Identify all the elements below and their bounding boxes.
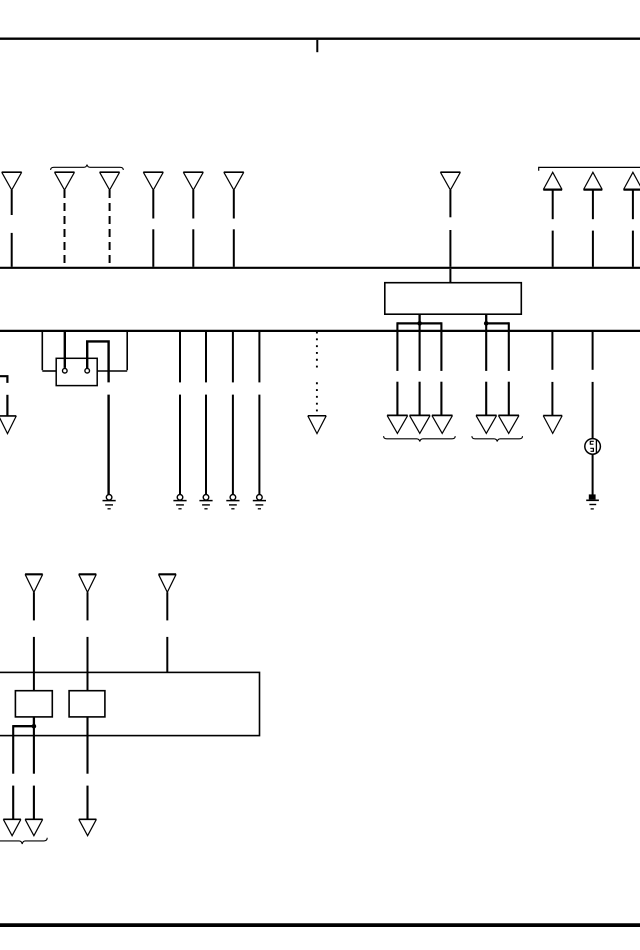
- connector arrow A2: [55, 172, 75, 190]
- wire bus 2 to arrow C7: [551, 332, 553, 416]
- junction dot J2: [484, 321, 489, 326]
- connector housing C6: [56, 358, 97, 385]
- connector arrow B2: [584, 172, 603, 189]
- connector arrow C6a (dotted wire): [308, 416, 326, 434]
- connector shell right lead: [97, 332, 127, 371]
- wire bus 2 to ground G2: [179, 332, 181, 494]
- wire bus line 2: [0, 330, 640, 332]
- wire right group drop 2: [508, 322, 510, 415]
- bottom border line: [0, 923, 640, 927]
- connector arrow C2: [410, 415, 431, 433]
- wire D3 to ECU box: [166, 592, 168, 672]
- top border tick mark: [316, 40, 318, 52]
- wire right group drop 1: [485, 323, 487, 415]
- underbrace for arrows C1-C3: [384, 436, 456, 441]
- ground G2: [173, 495, 186, 509]
- wire left group drop 2: [419, 323, 421, 415]
- connector arrow B1 (from other page): [543, 172, 562, 189]
- connector arrow D1: [25, 574, 43, 592]
- wire U2b output drop E3: [86, 717, 88, 819]
- dotted option wire: [316, 332, 318, 412]
- ground G6: [586, 500, 599, 509]
- connector arrow C3: [432, 415, 453, 433]
- ECU box U2: [0, 672, 260, 735]
- wire left group drop 3: [440, 322, 442, 415]
- relay box U1: [385, 283, 522, 315]
- wire A7 to relay box U1: [449, 190, 451, 283]
- ground G3: [199, 495, 212, 509]
- connector arrow E1: [3, 819, 21, 835]
- connector arrow C1: [387, 415, 408, 433]
- wire A4 to bus 1: [152, 190, 154, 267]
- wire noise filter to ground G6: [592, 454, 594, 495]
- junction blob at G6: [589, 494, 596, 499]
- wire bus 2 to noise filter: [592, 332, 594, 439]
- wire pin 2 to ground drop: [87, 341, 108, 494]
- connector arrow D3: [159, 574, 177, 592]
- wire stub U1 right output: [485, 314, 487, 323]
- wire B1 to bus 1: [552, 190, 554, 267]
- wire branch bar lower: [13, 725, 34, 727]
- wire off-page stub left: [0, 376, 7, 416]
- connector arrow B3: [624, 172, 640, 189]
- connector shell left lead: [42, 332, 56, 371]
- connector arrow A8 (left edge): [0, 416, 16, 434]
- overline for arrows B1-B3: [539, 167, 640, 170]
- ground G1: [103, 495, 116, 509]
- dashed wire A2 to bus 1: [64, 190, 66, 267]
- wire A5 to bus 1: [192, 190, 194, 267]
- wire bus 2 to ground G5: [258, 332, 260, 494]
- connector arrow A1 (to other page): [2, 172, 22, 190]
- wire B2 to bus 1: [592, 190, 594, 267]
- noise filter F1: [585, 439, 601, 455]
- wire D2 to ECU box: [87, 592, 89, 690]
- wire bus 2 to pin 1: [64, 332, 66, 368]
- connector arrow A6: [224, 172, 244, 190]
- terminal pin 1: [63, 368, 68, 373]
- connector arrow A5: [183, 172, 203, 190]
- underbrace for arrows C4-C5: [472, 436, 523, 441]
- junction dot J3: [32, 724, 37, 729]
- wire A6 to bus 1: [233, 190, 235, 267]
- junction dot J1: [417, 321, 422, 326]
- overbrace for arrows A2-A3: [51, 165, 124, 170]
- ground G5: [253, 495, 266, 509]
- wire left group drop 1: [396, 322, 398, 415]
- wire U2a output: [33, 717, 35, 727]
- connector arrow A7: [440, 172, 460, 190]
- wire bus 2 to ground G4: [232, 332, 234, 494]
- internal block U2b: [69, 691, 105, 717]
- wire branch bar right group: [486, 322, 509, 324]
- dashed wire A3 to bus 1: [109, 190, 111, 267]
- wire A1 to bus 1: [11, 190, 13, 267]
- ground G4: [226, 495, 239, 509]
- wire bus 2 to ground G3: [205, 332, 207, 494]
- connector arrow E3: [79, 819, 97, 835]
- wire branch bar left group: [397, 322, 441, 324]
- wire stub U1 left output: [418, 314, 420, 323]
- connector arrow C5: [498, 415, 519, 433]
- connector arrow D2: [79, 574, 97, 592]
- wire drop E2: [33, 727, 35, 819]
- top border line: [0, 38, 640, 40]
- underbrace for arrows E1-E2: [0, 838, 47, 844]
- connector arrow A3: [100, 172, 120, 190]
- wire drop E1: [12, 725, 14, 819]
- connector arrow C7: [543, 416, 562, 434]
- internal block U2a: [15, 691, 52, 717]
- wire bus line 1: [0, 267, 640, 269]
- wire D1 to ECU box: [33, 592, 35, 690]
- connector arrow A4: [143, 172, 163, 190]
- connector arrow C4: [476, 415, 497, 433]
- connector arrow E2: [25, 819, 43, 835]
- wire B3 to bus 1: [632, 190, 634, 267]
- terminal pin 2: [85, 368, 90, 373]
